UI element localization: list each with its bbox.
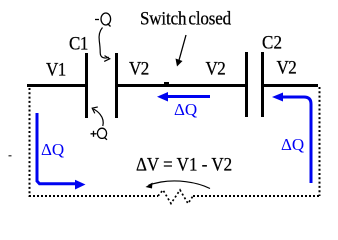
capacitor C2 left plate: [245, 52, 248, 117]
label delta-Q middle (blue): [174, 101, 197, 118]
label delta-V equation: [136, 155, 232, 174]
minus-Q curvy arrow to C1 right plate: [99, 28, 109, 59]
stray mark at left edge: [9, 155, 12, 157]
label Switch closed: [140, 9, 231, 28]
dotted border bottom right run: [193, 195, 320, 197]
label V2 (right of C2): [277, 58, 297, 77]
resistor zigzag (dotted): [158, 190, 193, 204]
label V2 (left of C2): [206, 59, 226, 78]
plus-Q handwritten label: [91, 128, 108, 140]
label delta-Q left (blue): [41, 141, 64, 158]
dotted border left side: [29, 88, 31, 197]
capacitor C2 right plate: [261, 52, 264, 117]
plus-Q curvy arrow to C1 left plate: [94, 109, 104, 126]
blue arrow middle (pointing left): [167, 95, 210, 98]
label delta-Q right (blue): [281, 136, 304, 153]
minus-Q handwritten label: [95, 13, 111, 27]
blue arrow left (down then right): [37, 113, 76, 184]
capacitor C1 right plate: [115, 53, 118, 118]
capacitor C1 left plate: [85, 53, 88, 118]
label C2: [262, 33, 282, 52]
dotted border bottom left run: [29, 195, 158, 197]
dotted border right side: [319, 87, 321, 196]
blue arrow right (up then left): [282, 97, 311, 183]
delta-V curved pointer arrow: [149, 181, 211, 189]
wire middle segment (switch closed): [118, 84, 245, 87]
label C1: [69, 34, 88, 53]
label V2 (right of C1): [129, 59, 149, 78]
switch contact bump: [164, 82, 169, 84]
wire left segment: [27, 84, 85, 87]
label V1: [46, 60, 66, 79]
switch closed pointer arrow: [179, 35, 186, 61]
wire right segment: [264, 84, 318, 87]
